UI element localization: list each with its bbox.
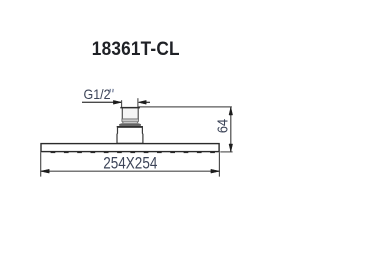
svg-text:18361T-CL: 18361T-CL [92,37,180,59]
arrow 254 left (points left) [41,169,50,173]
arrow 254 right (points right) [211,169,220,173]
nozzle dashes [51,151,215,153]
svg-text:G1/2: G1/2 [84,86,111,102]
nut collar [122,119,139,123]
extension line 254 left [40,152,42,176]
label inch tick 2 [112,89,115,92]
base body [117,127,143,143]
shower plate [41,144,219,152]
dimension line 254 [41,170,220,172]
pipe wall left [121,108,123,119]
extension line left of thread [121,100,123,107]
pipe top lip [120,107,140,109]
arrow right tail [146,101,151,103]
dimension line 64 [230,107,232,151]
bell shading band [120,124,141,126]
extension line 64 bottom [220,151,232,153]
label inch tick 1 [109,89,112,92]
leader line under G1/2 [82,101,121,103]
collar line [122,120,139,122]
base top edge [117,126,143,127]
pipe wall right [137,108,139,119]
extension line 254 right [218,152,220,176]
arrow 64 down [229,144,233,152]
arrow 64 up [229,107,233,115]
svg-text:254X254: 254X254 [103,154,157,173]
extension line right of thread [137,98,139,109]
svg-text:64: 64 [213,119,230,133]
reference line to 64 dimension [138,106,232,108]
thread dim arrow right (points left) [138,100,146,104]
thread pipe [122,108,139,119]
thread dim arrow left (points right) [113,100,121,104]
bell flare [120,123,141,124]
